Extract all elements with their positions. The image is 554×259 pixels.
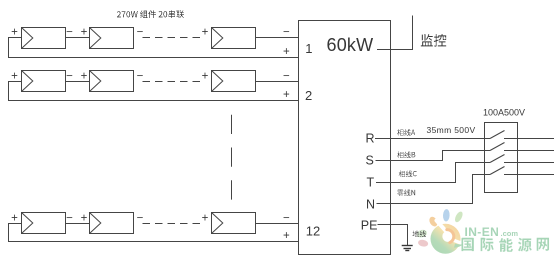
svg-text:12: 12 [306,224,320,239]
label string title 270W modules 20 in series [117,10,184,18]
wire dashed continuation (string 1) [143,37,201,39]
svg-text:35mm 500V: 35mm 500V [427,125,476,135]
svg-text:+: + [202,71,209,83]
svg-text:−: − [66,27,73,39]
svg-text:+: + [11,213,18,225]
wire S pole output to grid [504,150,554,152]
svg-text:+: + [283,89,290,101]
wire phase B (S to switch) [376,151,491,161]
wire PE to earth [378,225,408,246]
svg-text:+: + [283,46,290,58]
wire T pole output to grid [504,162,554,164]
svg-text:+: + [202,27,209,39]
PV module first (string 2) [22,71,66,92]
svg-text:N: N [366,197,375,211]
PV module last (string 1) [212,28,256,49]
svg-text:+: + [11,71,18,83]
svg-text:R: R [366,132,375,146]
PV module first (string 12) [22,213,66,234]
svg-text:−: − [137,71,144,83]
watermark logo swirl [431,221,465,254]
ground symbol [402,246,413,251]
svg-text:−: − [66,213,73,225]
svg-text:−: − [283,27,290,39]
svg-text:2: 2 [305,88,312,103]
switch blade R pole [490,131,505,139]
svg-text:+: + [11,27,18,39]
svg-text:1: 1 [305,41,312,56]
watermark text guoji nengyuan wang [462,238,550,252]
wire string 12 positive lead (left stub + down + return rail) [9,224,299,242]
label jiankong (monitoring) [421,34,446,47]
switch blade S pole [490,143,505,151]
wire R pole output to grid [504,138,554,140]
wire phase C (T to switch) [376,163,490,183]
svg-text:60kW: 60kW [327,35,374,55]
svg-text:+: + [81,71,88,83]
PV module second (string 1) [90,28,134,49]
PV module second (string 12) [90,213,134,234]
PV module last (string 12) [212,213,256,234]
wire monitoring connection [377,16,413,50]
switch blade T pole [490,155,505,163]
PV module first (string 1) [22,28,66,49]
wire last module to inverter (string 1) [256,37,299,39]
svg-text:IN-EN: IN-EN [465,225,500,239]
wire neutral (N to switch) [377,175,491,204]
wire dashed continuation (string 2) [143,81,201,83]
svg-text:PE: PE [361,218,378,232]
svg-text:T: T [367,175,375,189]
wire last module to inverter (string 2) [256,81,299,83]
wire dashed continuation (string 12) [143,223,201,225]
PV module last (string 2) [212,71,256,92]
svg-text:+: + [202,213,209,225]
PV module second (string 2) [90,71,134,92]
wire module1-module2 (string 12) [66,223,90,225]
svg-text:−: − [66,71,73,83]
watermark logo petals [416,209,464,248]
svg-text:+: + [283,230,290,242]
svg-text:+: + [81,27,88,39]
wire module1-module2 (string 1) [66,37,90,39]
circuit breaker QF1 box [485,123,518,193]
wire module1-module2 (string 2) [66,81,90,83]
label xiangxian C (phase C) [399,170,417,177]
switch blade N pole [490,167,505,175]
svg-text:−: − [137,213,144,225]
wire phase A (R to switch) [375,138,490,140]
inverter U1 60kW box [299,21,391,255]
ellipsis dashed line (strings 3 to 11) [231,115,233,200]
svg-text:+: + [81,213,88,225]
label dixian (earth wire) [413,231,426,237]
label lingxian N (neutral) [397,190,415,196]
svg-text:−: − [283,71,290,83]
svg-text:S: S [366,154,374,168]
wire string 1 positive lead (left stub + down + return rail) [9,38,299,58]
wire last module to inverter (string 12) [256,223,299,225]
label xiangxian A (phase A) [397,129,415,136]
svg-text:−: − [283,213,290,225]
svg-text:−: − [137,27,144,39]
wire N pole output to grid [504,174,554,176]
wire string 2 positive lead (left stub + down + return rail) [9,82,299,101]
svg-text:.com: .com [501,229,519,238]
svg-text:100A500V: 100A500V [483,108,525,118]
label xiangxian B (phase B) [397,151,415,158]
